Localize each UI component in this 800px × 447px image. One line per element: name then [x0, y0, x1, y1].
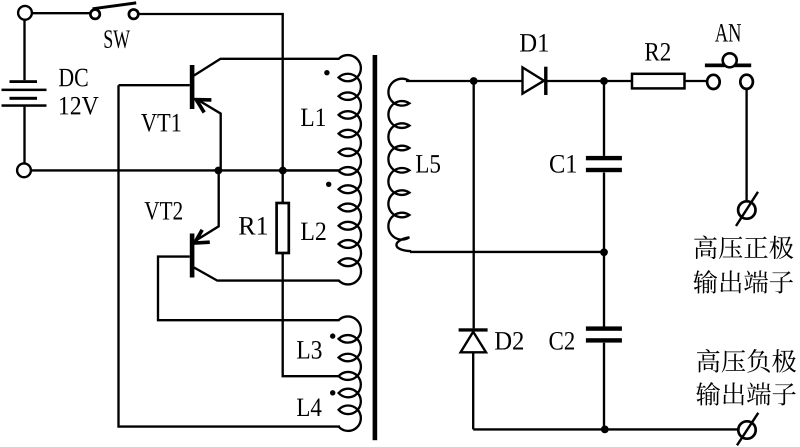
battery B plates	[2, 80, 47, 107]
junction node emitters	[215, 167, 223, 175]
label AN	[715, 24, 741, 41]
transistor VT1 base bar	[190, 65, 195, 109]
diode D2 triangle	[461, 332, 486, 353]
junction node L5/D1	[470, 77, 478, 85]
junction node tap/R1	[279, 167, 287, 175]
wire D1 cathode to R2	[548, 80, 633, 82]
label D2	[495, 332, 523, 350]
wire battery top terminal to battery	[23, 20, 25, 80]
negative output terminal	[737, 413, 758, 446]
wire L5 top to D1 anode	[406, 80, 522, 82]
label VT2	[145, 202, 182, 220]
wire AN to positive output terminal	[745, 89, 747, 200]
label L5	[416, 155, 440, 173]
push-button AN	[705, 53, 753, 89]
phase dot L1	[324, 70, 329, 75]
label D1	[520, 34, 548, 52]
label L2	[301, 222, 325, 240]
label R1	[239, 217, 267, 234]
capacitor C2 plates	[586, 326, 622, 342]
wire terminal to switch	[32, 12, 91, 14]
transistor VT2 base bar	[190, 234, 195, 278]
transistor VT2 base wire to L3 top	[158, 257, 340, 321]
junction node C2/bottom rail	[601, 426, 609, 434]
phase dot L4	[330, 390, 335, 395]
transistor VT1 emitter wire	[199, 100, 221, 170]
wire tap node to L1/L2 tap	[283, 169, 340, 171]
phase dot L3	[330, 333, 335, 338]
label negative output terminal line 1	[697, 349, 720, 373]
positive output terminal	[736, 192, 758, 226]
transistor VT1 collector wire	[194, 59, 340, 76]
winding L2	[339, 167, 361, 284]
label L3	[297, 341, 321, 359]
vertical wire through C1 and C2	[603, 81, 605, 429]
label C2	[550, 332, 574, 350]
transformer core	[373, 55, 378, 440]
transistor VT1 base wire	[119, 84, 190, 86]
label positive output terminal line 2	[693, 270, 717, 294]
transistor VT1 emitter arrow	[196, 100, 211, 113]
label L4	[297, 399, 322, 416]
wire R2 to push-button AN	[685, 80, 708, 82]
wire L5 bottom to C1/C2 node	[410, 251, 604, 253]
transistor VT2 emitter arrow	[195, 230, 210, 243]
resistor R2	[632, 74, 685, 89]
label R2	[645, 43, 670, 61]
label 12V	[60, 97, 98, 115]
battery negative terminal circle	[17, 163, 31, 177]
wire battery to bottom terminal circle	[23, 107, 25, 164]
wire bottom terminal to emitter node and L1/L2 tap node	[31, 169, 340, 171]
winding L3	[339, 316, 361, 380]
diode D2 cathode bar	[459, 328, 488, 331]
transistor VT2 emitter wire	[196, 171, 219, 241]
junction node D1/C1/R2	[600, 77, 608, 85]
wire D1 node down to D2 cathode	[473, 81, 475, 328]
label positive output terminal line 1	[694, 236, 717, 260]
label DC	[59, 69, 87, 87]
junction node C1/C2/L5	[600, 248, 608, 256]
label C1	[550, 155, 576, 173]
capacitor C1 plates	[586, 156, 622, 172]
label L1	[301, 109, 325, 126]
winding L1	[339, 55, 361, 175]
label negative output terminal line 2	[696, 382, 720, 406]
diode D1 triangle	[523, 67, 545, 93]
transistor VT2 collector wire to L2 bottom	[194, 268, 340, 281]
wire R1 bottom to L3/L4 tap	[283, 253, 340, 376]
phase dot L2	[326, 182, 331, 187]
wire D2 anode to bottom rail	[472, 352, 474, 429]
switch SW	[90, 3, 138, 19]
diode D1 cathode bar	[544, 67, 547, 95]
winding L5	[388, 79, 411, 252]
winding L4	[339, 372, 361, 431]
bottom rail wire to negative output terminal	[473, 428, 738, 430]
wire switch to corner, down to tap node, to R1 top	[138, 14, 282, 203]
resistor R1	[277, 203, 289, 253]
wire VT1 base down to L4 bottom wire	[119, 85, 341, 426]
label VT1	[141, 114, 180, 132]
battery positive terminal circle	[18, 6, 32, 20]
label SW	[105, 30, 130, 48]
